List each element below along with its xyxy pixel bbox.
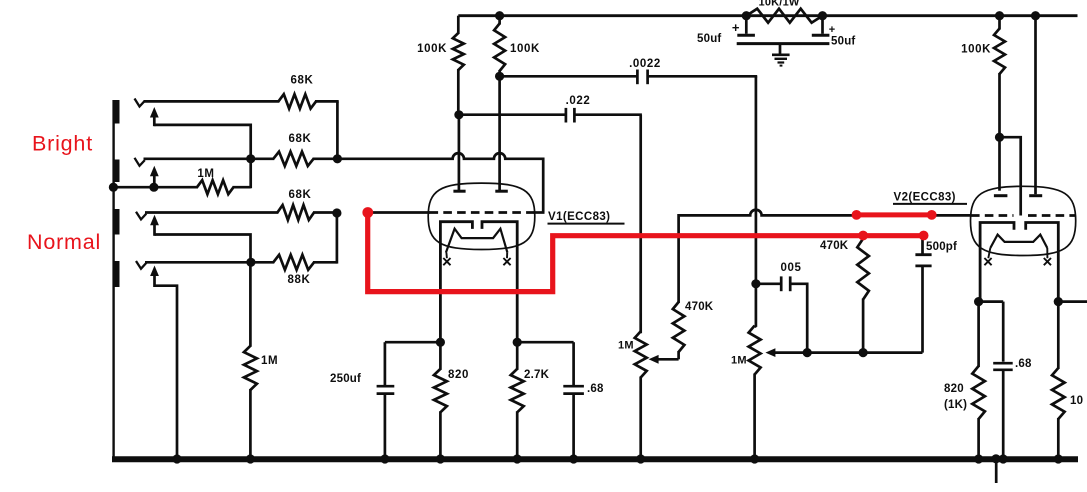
wire to V2 grid with hop	[679, 210, 971, 216]
svg-text:100K: 100K	[417, 43, 447, 55]
label 88K R5	[288, 274, 311, 286]
jack J2 tip contact	[135, 158, 145, 166]
wire V2 grid link	[1000, 137, 1021, 215]
svg-text:.0022: .0022	[629, 58, 661, 70]
label .68 C4	[587, 383, 604, 395]
label 005 C7	[781, 262, 802, 274]
node 1M R6 at bus	[246, 454, 255, 463]
wire to .022 cap	[459, 113, 566, 116]
label 820 R9	[448, 369, 469, 381]
wire J1 switch run	[154, 125, 250, 188]
wire node B down	[336, 213, 339, 264]
cathode V1a	[440, 222, 472, 343]
label 250uf C3	[330, 373, 361, 385]
label V2(ECC83)	[893, 192, 967, 204]
svg-text:50uf: 50uf	[697, 33, 721, 45]
label 820 R15	[944, 383, 964, 395]
heater V1	[446, 229, 508, 259]
node V1a cathode junction	[436, 338, 445, 347]
wire .68 C9 top lead	[1002, 302, 1005, 362]
svg-text:820: 820	[448, 369, 469, 381]
node rail 10K right	[818, 11, 827, 20]
capacitor .68 C9	[993, 363, 1013, 370]
wire 250uf top lead	[384, 342, 387, 386]
label + C5	[732, 20, 740, 35]
wire V1 grid from node	[368, 211, 430, 214]
wire J3 switch run	[155, 235, 251, 264]
jack J2 body bar	[115, 160, 120, 183]
svg-text:1M: 1M	[618, 340, 634, 352]
red jumper path	[368, 213, 924, 292]
svg-text:(1K): (1K)	[944, 399, 967, 411]
wire 1M to J2 node	[233, 186, 251, 189]
resistor 10K/1W R11	[746, 9, 822, 23]
label 68K R1	[291, 75, 314, 87]
svg-text:1M: 1M	[197, 168, 214, 180]
heater pin X right V2	[1044, 258, 1051, 265]
label V1(ECC83)	[548, 211, 625, 224]
svg-text:470K: 470K	[820, 240, 849, 252]
wire V2a plate lead	[998, 137, 1001, 191]
node V2 plate-grid junction	[995, 133, 1004, 142]
wire .68 bottom lead	[572, 394, 575, 459]
node J2 switch to ground wire	[149, 183, 158, 192]
pot wiper arrow left	[649, 355, 659, 364]
plate V2a	[994, 194, 1008, 197]
node rail 10K left	[742, 11, 751, 20]
wire B+ rail	[458, 14, 1077, 17]
wire J1 tip to 68K	[144, 100, 280, 103]
node J4 ground at bus	[172, 454, 181, 463]
grid V1 dashed	[430, 211, 536, 214]
wire 1M R6 to bus	[249, 389, 252, 459]
node .0022 junction	[495, 72, 504, 81]
capacitor 005 C7	[781, 276, 790, 291]
resistor 820(1K) R15	[972, 302, 985, 459]
svg-text:50uf: 50uf	[831, 36, 855, 48]
label 68K R4	[289, 189, 312, 201]
node 005 junction	[751, 279, 760, 288]
svg-text:Bright: Bright	[32, 132, 93, 156]
node R16 at bus	[1054, 454, 1063, 463]
node rail junction R8	[495, 11, 504, 20]
svg-text:88K: 88K	[288, 274, 311, 286]
jack J1 tip contact	[135, 99, 145, 107]
label 50uf C6	[831, 36, 855, 48]
node .68 at bus	[569, 454, 578, 463]
wire J4 tip	[145, 261, 274, 264]
label .0022 C2	[629, 58, 661, 70]
resistor 1M R6	[244, 346, 257, 390]
capacitor .022 C1	[566, 108, 575, 123]
jack J4 tip contact	[136, 261, 146, 269]
svg-text:10K/1W: 10K/1W	[759, 0, 800, 8]
label (1K) R15	[944, 399, 967, 411]
svg-text:V2(ECC83): V2(ECC83)	[894, 192, 956, 204]
wire 250uf bottom lead	[384, 394, 387, 459]
node 820 at bus	[436, 454, 445, 463]
capacitor 50uf C5 lead	[745, 16, 748, 34]
svg-text:500pf: 500pf	[926, 241, 957, 253]
svg-text:1M: 1M	[731, 355, 747, 367]
resistor 100K R12	[994, 16, 1005, 139]
wire .68 C9 bottom lead	[1002, 370, 1005, 459]
tube envelope V1	[428, 183, 535, 249]
resistor 68K R1	[278, 94, 316, 108]
capacitor 50uf C6 lead	[821, 16, 824, 34]
node V2b cathode junction	[1054, 297, 1063, 306]
wire .68 top lead	[572, 342, 575, 386]
wire J3 tip	[145, 211, 278, 214]
node 1M P2 at bus	[750, 454, 759, 463]
jack J3 switch arrow	[150, 215, 159, 236]
jack J3 tip contact	[136, 212, 146, 220]
wire node down	[336, 101, 339, 159]
capacitor .0022 C2	[637, 70, 647, 85]
pot wiper arrow P2	[765, 348, 775, 357]
wire 470K to wiper	[657, 358, 679, 361]
jack J4 switch arrow	[150, 266, 159, 288]
label Normal	[27, 230, 101, 254]
node 68K junction A	[333, 154, 342, 163]
cathode V2b	[1026, 223, 1059, 302]
plate V1a	[453, 190, 465, 193]
wire J2 tip	[144, 157, 275, 160]
label 50uf C5	[697, 33, 721, 45]
grid V2 dashed left	[971, 214, 1014, 217]
label 100K R12	[961, 44, 991, 56]
svg-text:100K: 100K	[510, 43, 540, 55]
node rail junction V2b	[1031, 11, 1040, 20]
jack J2 switch arrow	[150, 166, 159, 189]
wire plate lead V1b	[498, 70, 501, 191]
svg-text:68K: 68K	[291, 75, 314, 87]
svg-text:10: 10	[1070, 395, 1083, 407]
wire .022 to volume	[574, 113, 642, 116]
node 005 at wiper wire	[803, 348, 812, 357]
node 820 R15 at bus	[974, 454, 983, 463]
svg-text:250uf: 250uf	[330, 373, 361, 385]
svg-text:68K: 68K	[289, 133, 312, 145]
wire V2b plate lead	[1034, 16, 1037, 195]
ground symbol	[772, 55, 790, 66]
wire to .0022 cap	[500, 75, 638, 78]
plate V1b	[495, 190, 508, 193]
resistor 2.7K R10	[511, 342, 524, 459]
plate V2b	[1029, 194, 1042, 197]
node 470K at wiper wire	[859, 348, 868, 357]
node 68K junction B	[332, 208, 341, 217]
resistor 88K R5	[273, 255, 314, 270]
heater pin X left V2	[984, 258, 991, 265]
svg-text:68K: 68K	[289, 189, 312, 201]
node rail junction R12	[995, 11, 1004, 20]
label .022 C1	[566, 95, 591, 107]
tube envelope V2	[971, 186, 1076, 255]
heater V2	[988, 235, 1047, 259]
capacitor 50uf C6 plate	[812, 34, 830, 37]
label 100K R8	[510, 43, 540, 55]
ground stub	[991, 454, 1000, 483]
svg-text:820: 820	[944, 383, 964, 395]
label 470K R14	[820, 240, 849, 252]
svg-text:.022: .022	[566, 95, 591, 107]
svg-text:.68: .68	[1015, 358, 1032, 370]
label 1M R3	[197, 168, 214, 180]
node .68 C9 at bus	[999, 454, 1008, 463]
svg-text:+: +	[732, 20, 740, 35]
wire chassis line left	[112, 100, 114, 459]
svg-text:470K: 470K	[685, 301, 714, 313]
capacitor common plate	[737, 42, 830, 45]
node V2a cathode junction	[974, 297, 983, 306]
svg-text:2.7K: 2.7K	[524, 369, 550, 381]
resistor 1M R3	[197, 180, 234, 194]
jack J1 body bar	[115, 100, 120, 124]
wire ground bus	[112, 456, 1078, 462]
wire 88K to node B	[313, 261, 337, 264]
node J2/1M junction	[246, 154, 255, 163]
resistor 68K R4	[277, 205, 314, 220]
potentiometer 1M P2	[749, 326, 761, 459]
capacitor 250uf C3	[377, 386, 395, 393]
capacitor 50uf C5 plate	[737, 34, 755, 37]
wire down to 1M P2	[755, 284, 756, 327]
resistor 470K R14	[857, 239, 869, 353]
ground symbol stem	[779, 44, 782, 54]
heater pin X left V1	[443, 258, 450, 265]
label 1M R6	[261, 355, 278, 367]
wire wiper bus	[775, 351, 923, 354]
resistor R16	[1052, 302, 1065, 459]
wire J4 node down	[249, 262, 252, 347]
svg-text:1M: 1M	[261, 355, 278, 367]
wire 68K R4 to node	[313, 211, 338, 214]
svg-text:Normal: Normal	[27, 230, 101, 254]
red node right	[927, 210, 937, 220]
label 500pf C8	[926, 241, 957, 253]
label 2.7K R10	[524, 369, 550, 381]
label 68K R2	[289, 133, 312, 145]
capacitor .68 C4	[563, 386, 584, 393]
node 2.7K at bus	[513, 454, 522, 463]
cathode V2a	[980, 223, 1014, 302]
jack J4 body bar	[115, 261, 120, 287]
wire 68K R2 to node	[313, 157, 339, 160]
potentiometer 1M P1	[635, 331, 647, 459]
wire to .68 C9	[979, 300, 1004, 303]
label .68 C9	[1015, 358, 1032, 370]
heater pin X right V1	[503, 258, 510, 265]
svg-text:100K: 100K	[961, 44, 991, 56]
svg-text:V1(ECC83): V1(ECC83)	[548, 211, 610, 223]
label R16	[1070, 395, 1083, 407]
red node 500pf top	[919, 231, 929, 241]
label 1M P1	[618, 340, 634, 352]
wire V2b cathode out	[1058, 300, 1087, 303]
wire ground-side run	[112, 186, 198, 189]
svg-text:.68: .68	[587, 383, 604, 395]
cathode V1b	[482, 222, 517, 343]
wire grid V1 right link	[534, 211, 545, 214]
svg-text:+: +	[829, 24, 836, 36]
svg-text:005: 005	[781, 262, 802, 274]
wire to .68 cap	[517, 341, 573, 344]
node 1M P1 at bus	[636, 454, 645, 463]
red highlight wire	[857, 212, 932, 217]
resistor 68K R2	[273, 152, 313, 166]
node 250uf at bus	[380, 454, 389, 463]
capacitor 500pf C8	[915, 236, 931, 266]
label Bright	[32, 132, 93, 156]
red node V1 grid	[362, 207, 373, 218]
jack J3 body bar	[115, 209, 120, 235]
wire .0022 right	[648, 75, 758, 78]
label 10K/1W R11	[759, 0, 800, 8]
wire to 005 cap	[756, 282, 781, 285]
node V1b cathode junction	[513, 338, 522, 347]
wire down to normal volume	[755, 76, 758, 285]
node .022 junction	[454, 110, 463, 119]
node chassis junction	[109, 183, 118, 192]
resistor 100K R8	[494, 16, 505, 71]
grid V2 dashed right	[1028, 214, 1075, 217]
label 1M P2	[731, 355, 747, 367]
wire bright channel to V1 grid	[337, 153, 543, 212]
resistor 100K R7	[453, 16, 464, 116]
wire up to 500pf	[921, 267, 924, 353]
wire plate lead V1a	[458, 115, 461, 191]
wire down to bright volume	[639, 115, 642, 334]
resistor 820 R9	[434, 342, 447, 459]
wire J4 switch to ground	[155, 286, 178, 459]
red node left	[852, 210, 862, 220]
wire 68K R1 to node	[315, 100, 339, 103]
wire 005 to wiper wire	[790, 284, 807, 353]
label 100K R7	[417, 43, 447, 55]
resistor 470K R13	[673, 214, 685, 359]
red node 470K top	[858, 231, 868, 241]
label + C6	[829, 24, 836, 36]
wire to 250uf	[385, 341, 441, 344]
label 470K R13	[685, 301, 714, 313]
jack J1 switch arrow	[150, 107, 159, 126]
node J4 junction	[246, 258, 255, 267]
